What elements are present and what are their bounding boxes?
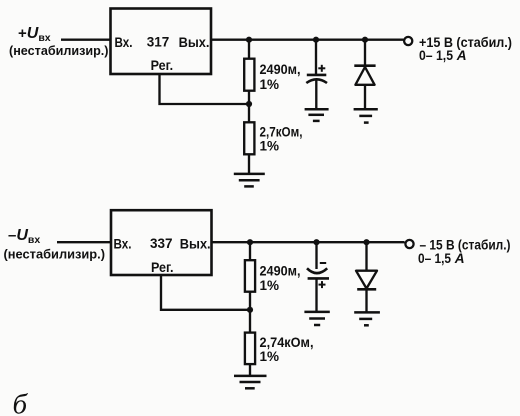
svg-text:1%: 1%	[260, 76, 280, 92]
wire U1 output rail to terminal	[211, 39, 404, 41]
ground under VD2	[354, 312, 380, 325]
ground under C2	[304, 312, 329, 325]
wire U1 Рег pin down and right to R1/R2 junction	[160, 75, 250, 105]
output terminal -15V open circle	[405, 240, 413, 248]
node junction rail/VD1	[362, 37, 368, 43]
wire VD2 top lead	[365, 242, 367, 271]
svg-text:0– 1,5 А: 0– 1,5 А	[418, 251, 465, 266]
node junction R3/R4/Рег	[247, 307, 253, 313]
capacitor C2 negative curved plate	[307, 268, 327, 273]
svg-text:1%: 1%	[260, 277, 280, 293]
wire VD1 top lead	[364, 40, 366, 66]
regulator U1 317 box	[111, 9, 212, 75]
capacitor C2 polarity plus	[319, 281, 326, 288]
wire input to U2 Вх pin	[57, 241, 111, 243]
wire R1 top lead	[248, 40, 250, 59]
wire R4 bottom lead to ground	[249, 364, 251, 375]
wire U2 output rail to terminal	[212, 241, 405, 243]
capacitor C2 positive plate	[308, 277, 329, 280]
resistor R3 249 Ом body	[245, 260, 255, 292]
svg-text:Рег.: Рег.	[151, 58, 174, 73]
diode VD1 triangle (pointing up)	[355, 67, 374, 85]
node junction R1/R2/Рег	[246, 101, 252, 107]
ground under VD1	[354, 109, 378, 122]
capacitor C1 negative curved plate	[306, 79, 327, 83]
wire U2 Рег pin down and right to R3/R4 junction	[161, 275, 250, 310]
svg-text:Вх.: Вх.	[114, 236, 132, 251]
svg-text:1%: 1%	[260, 348, 280, 364]
diode VD2 triangle (pointing down)	[356, 271, 377, 289]
ground under R2	[234, 174, 265, 187]
svg-text:(нестабилизир.): (нестабилизир.)	[4, 248, 106, 262]
node junction rail/C1	[313, 37, 319, 43]
svg-text:Вых.: Вых.	[180, 236, 211, 251]
svg-text:2490м,: 2490м,	[260, 61, 301, 77]
capacitor C2 polarity minus	[320, 262, 326, 264]
svg-text:1%: 1%	[260, 137, 280, 153]
svg-text:Вх.: Вх.	[115, 35, 133, 50]
diode VD2 cathode bar	[357, 288, 376, 291]
regulator U2 337 box	[111, 210, 212, 275]
wire R4 top lead	[249, 310, 251, 333]
node junction rail/VD2	[363, 239, 369, 245]
svg-text:Рег.: Рег.	[151, 260, 174, 275]
wire R1 bottom lead	[248, 91, 250, 104]
diode VD1 cathode bar	[354, 64, 375, 67]
output terminal +15V open circle	[404, 37, 412, 45]
wire R3 bottom lead	[249, 292, 251, 310]
svg-text:337: 337	[150, 235, 173, 251]
wire C1 bottom lead to ground	[315, 80, 317, 110]
wire input to U1 Вх pin	[61, 39, 110, 41]
svg-text:317: 317	[147, 33, 170, 49]
wire C1 top lead	[315, 40, 317, 74]
wire R3 top lead	[249, 242, 251, 260]
node junction rail/R3	[247, 239, 253, 245]
wire R2 bottom lead to ground	[248, 154, 250, 173]
wire VD2 bottom lead to ground	[365, 289, 367, 312]
node junction rail/R1	[246, 37, 252, 43]
ground under R4	[234, 376, 267, 388]
svg-text:0– 1,5 А: 0– 1,5 А	[419, 48, 467, 63]
resistor R1 249 Ом body	[244, 59, 254, 91]
wire VD1 bottom lead to ground	[364, 85, 366, 109]
capacitor C1 positive plate	[307, 74, 327, 77]
node junction rail/C2	[313, 239, 319, 245]
capacitor C1 polarity plus	[318, 65, 325, 72]
svg-text:(нестабилизир.): (нестабилизир.)	[9, 44, 108, 58]
resistor R2 2,7кОм body	[244, 122, 254, 154]
ground under C1	[305, 109, 329, 121]
wire C2 top lead	[315, 242, 317, 269]
wire R2 top lead	[248, 104, 250, 123]
svg-text:б: б	[13, 389, 29, 416]
wire C2 bottom lead to ground	[315, 278, 317, 311]
svg-text:Вых.: Вых.	[179, 35, 210, 50]
resistor R4 2,74кОм body	[245, 333, 255, 365]
